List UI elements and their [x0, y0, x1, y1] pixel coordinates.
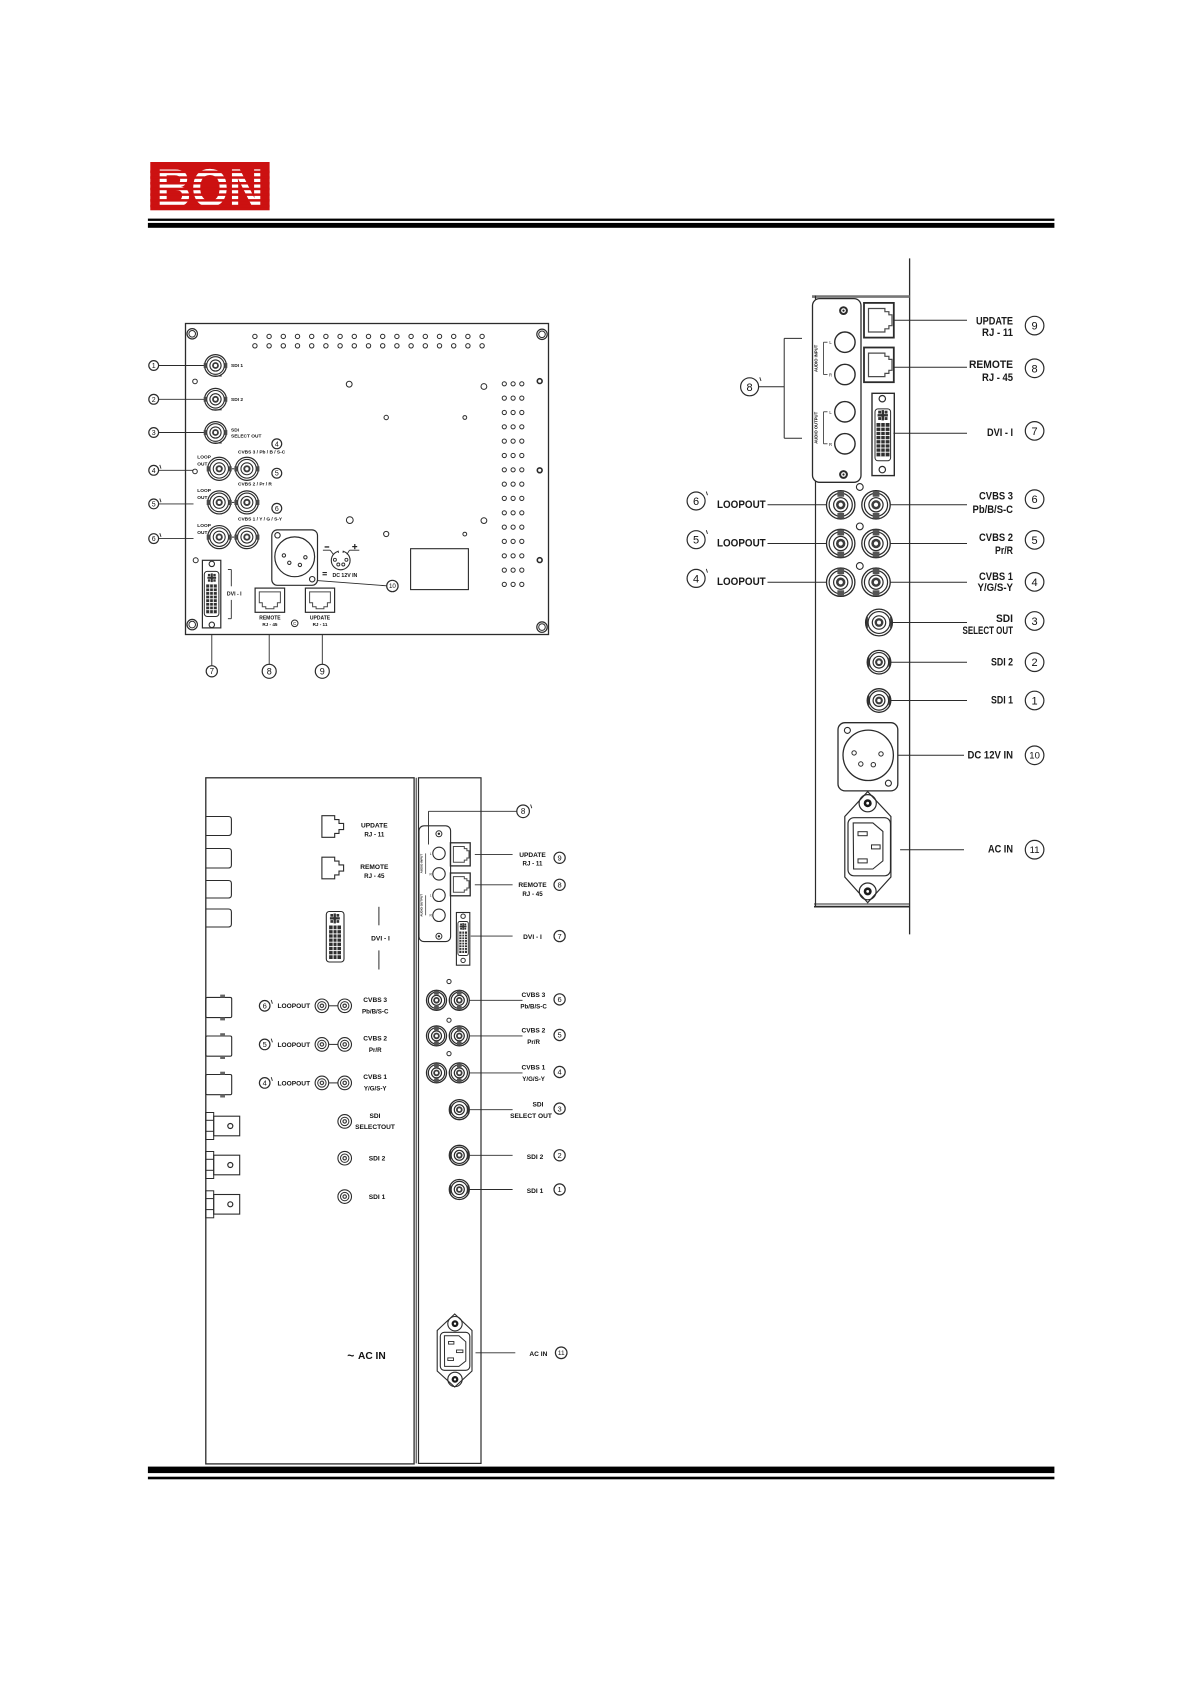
label circle 5 (right) — [272, 468, 282, 478]
BNC CVBS 1 — [235, 526, 258, 549]
RCA CVBS 1 C — [338, 1076, 352, 1090]
BNC LOOPOUT 6 B — [827, 491, 855, 519]
svg-text:SDI 1: SDI 1 — [369, 1194, 386, 1201]
wire REMOTE D — [475, 884, 513, 886]
panel A corner screws — [187, 329, 197, 339]
AC inlet screw top B — [859, 795, 876, 812]
BNC SDI 2 B — [867, 650, 891, 674]
svg-text:CVBS 1: CVBS 1 — [363, 1074, 387, 1081]
panel hole above row 4 D — [447, 1052, 451, 1056]
svg-text:4: 4 — [693, 573, 699, 585]
svg-text:6: 6 — [275, 506, 279, 513]
BNC loop out 6 D — [427, 990, 447, 1010]
label circle 6 prime B — [687, 492, 705, 510]
panel A right bold holes — [537, 379, 542, 384]
label circle 11 B — [1025, 840, 1044, 859]
wire SDI 1 D — [470, 1189, 513, 1191]
svg-text:CVBS 3: CVBS 3 — [979, 491, 1013, 503]
panel B bottom edge — [814, 903, 910, 905]
BNC SDI 1 D — [449, 1180, 469, 1200]
panel hole above row 6 D — [447, 979, 451, 983]
panel A vent holes — [253, 334, 257, 338]
BNC SDI 2 — [205, 388, 227, 410]
wire to label 8 — [268, 635, 270, 665]
wire to label 7 — [211, 635, 213, 666]
svg-text:5: 5 — [693, 535, 699, 547]
svg-text:9: 9 — [1032, 321, 1038, 333]
svg-text:SDI 1: SDI 1 — [527, 1188, 544, 1195]
wire pair link 6 — [232, 536, 235, 538]
label circle 5 prime (left) — [149, 499, 159, 509]
label circle 4 prime C — [259, 1078, 270, 1089]
AC inlet screw bottom B — [859, 883, 876, 900]
svg-text:LOOPOUT: LOOPOUT — [717, 538, 766, 550]
svg-text:8: 8 — [1032, 363, 1038, 375]
label circle 3 D — [554, 1103, 565, 1114]
panel C outline — [206, 778, 414, 1464]
label circle 2 D — [554, 1150, 565, 1161]
panel D inner left edge — [415, 778, 417, 1464]
label circle 5 prime C — [259, 1039, 270, 1050]
wire REMOTE B — [894, 366, 967, 368]
svg-text:OUT: OUT — [197, 462, 207, 468]
svg-text:5: 5 — [152, 501, 156, 508]
svg-text:6: 6 — [263, 1002, 267, 1011]
RCA CVBS 2 C — [338, 1038, 352, 1052]
BNC LOOP OUT 6 — [208, 526, 231, 549]
BNC SDI SELECT OUT B — [866, 609, 893, 636]
svg-text:DVI - I: DVI - I — [371, 936, 390, 943]
leader wire 5 prime — [159, 503, 194, 505]
audio sub-panel screws B — [840, 307, 847, 314]
AC inlet screw bottom D — [448, 1372, 462, 1386]
svg-text:CVBS 3: CVBS 3 — [363, 997, 387, 1004]
label circle 4 prime B — [687, 569, 705, 587]
wire SDI 2 B — [891, 661, 967, 663]
svg-text:SDI: SDI — [370, 1113, 381, 1120]
svg-text:1: 1 — [1032, 696, 1038, 708]
wire 8 prime D — [429, 810, 517, 812]
svg-text:L: L — [430, 894, 432, 898]
BNC SDI SELECT OUT D — [449, 1100, 469, 1120]
svg-text:SDI 2: SDI 2 — [369, 1156, 386, 1163]
svg-text:~: ~ — [347, 1349, 354, 1363]
svg-text:R: R — [829, 373, 832, 378]
svg-text:Pb/B/S-C: Pb/B/S-C — [520, 1003, 547, 1010]
svg-text:Pr/R: Pr/R — [369, 1047, 382, 1054]
top rule thin — [148, 219, 1055, 221]
svg-text:5: 5 — [1032, 535, 1038, 547]
wire CVBS 2 D — [470, 1035, 523, 1037]
BON logo stripes — [150, 171, 269, 174]
svg-text:OUT: OUT — [197, 530, 207, 536]
svg-text:5: 5 — [263, 1040, 267, 1049]
BNC SDI 1 B — [867, 689, 891, 713]
XLR pins — [282, 554, 285, 557]
svg-text:RJ - 45: RJ - 45 — [364, 873, 385, 880]
svg-text:4: 4 — [558, 1068, 562, 1077]
DC jack ears — [330, 550, 333, 554]
svg-text:CVBS 2: CVBS 2 — [521, 1028, 545, 1035]
panel B frame vertical line — [909, 258, 911, 934]
svg-text:SELECT OUT: SELECT OUT — [231, 434, 261, 440]
wire SDI 2 D — [470, 1154, 513, 1156]
RJ-45 REMOTE plug profile C — [322, 857, 344, 879]
svg-text:REMOTE: REMOTE — [518, 882, 547, 889]
wire LOOPOUT 5 B — [768, 543, 827, 545]
svg-text:LOOPOUT: LOOPOUT — [278, 1080, 311, 1087]
panel hole above row 6 B — [856, 484, 863, 491]
BNC LOOP OUT 4 — [208, 457, 231, 480]
wire LOOPOUT 4 B — [768, 581, 827, 583]
wire to label 9 — [321, 635, 323, 665]
svg-text:SDI 2: SDI 2 — [527, 1154, 544, 1161]
svg-text:DVI - I: DVI - I — [987, 427, 1013, 439]
svg-text:6: 6 — [693, 496, 699, 508]
wire AC IN D — [476, 1352, 516, 1354]
wire CVBS 3 D — [470, 999, 523, 1001]
svg-text:5: 5 — [558, 1031, 562, 1040]
audio output L jack B — [835, 402, 855, 422]
svg-text:DVI - I: DVI - I — [523, 934, 542, 941]
panel hole above row 5 D — [447, 1018, 451, 1022]
BNC SDI 2 D — [449, 1145, 469, 1165]
svg-text:AC IN: AC IN — [529, 1351, 547, 1358]
svg-text:AUDIO INPUT: AUDIO INPUT — [813, 344, 818, 372]
label circle 2 B — [1025, 653, 1044, 672]
svg-text:7: 7 — [210, 667, 215, 676]
svg-text:UPDATE: UPDATE — [976, 316, 1013, 328]
label circle 6 D — [554, 994, 565, 1005]
svg-text:2: 2 — [558, 1151, 562, 1160]
svg-text:SELECTOUT: SELECTOUT — [355, 1124, 395, 1131]
RCA SDI 2 C — [338, 1151, 352, 1165]
AC pin slots B — [858, 832, 867, 836]
svg-text:8: 8 — [558, 881, 562, 890]
svg-text:1: 1 — [152, 363, 156, 370]
svg-text:RJ - 45: RJ - 45 — [982, 372, 1013, 384]
svg-text:3: 3 — [152, 430, 156, 437]
label circle 8 D — [554, 879, 565, 890]
audio jack side views C — [206, 817, 232, 836]
label circle 4 B — [1025, 573, 1044, 592]
svg-text:AUDIO INPUT: AUDIO INPUT — [419, 854, 423, 874]
audio sub-panel D — [419, 826, 451, 942]
svg-text:11: 11 — [1030, 845, 1040, 856]
DVI bracket panel A — [230, 570, 232, 587]
audio input R jack B — [835, 364, 855, 384]
panel D outline — [419, 778, 482, 1464]
svg-text:LOOP: LOOP — [197, 488, 211, 494]
BNC CVBS 2 — [235, 491, 258, 514]
DC jack minus mark — [325, 546, 330, 547]
svg-text:LOOPOUT: LOOPOUT — [717, 499, 766, 511]
RCA SDI 1 C — [338, 1190, 352, 1204]
DVI-I connector B — [872, 393, 894, 475]
wire CVBS 2 B — [890, 543, 967, 545]
label circle 8 — [262, 664, 276, 678]
label circle 1 D — [554, 1184, 565, 1195]
svg-text:OUT: OUT — [197, 495, 207, 501]
BNC CVBS 3 D — [449, 990, 469, 1010]
wire pair link 5 — [232, 501, 235, 503]
svg-text:Y/G/S-Y: Y/G/S-Y — [364, 1086, 388, 1093]
audio sub-panel B — [813, 299, 862, 483]
svg-text:9: 9 — [320, 667, 325, 677]
label circle 9 D — [554, 852, 565, 863]
bottom rule thin — [148, 1477, 1055, 1480]
DVI-I connector panel A — [202, 560, 220, 628]
SDI BNC side views C — [206, 1113, 214, 1140]
BNC side views C — [206, 997, 232, 1017]
svg-text:LOOPOUT: LOOPOUT — [278, 1042, 311, 1049]
label circle 8 prime B — [741, 378, 759, 396]
svg-text:RJ - 45: RJ - 45 — [522, 891, 543, 898]
svg-text:SDI 1: SDI 1 — [231, 363, 243, 369]
BNC LOOPOUT 4 B — [827, 568, 855, 596]
BNC CVBS 3 — [235, 457, 258, 480]
label circle 7 D — [554, 931, 565, 942]
AC pin slots D — [449, 1342, 454, 1345]
label circle 1 B — [1025, 691, 1044, 710]
BNC CVBS 2 D — [449, 1026, 469, 1046]
XLR screw bottom-right — [310, 577, 315, 582]
svg-text:SDI 1: SDI 1 — [991, 695, 1013, 707]
svg-text:8: 8 — [747, 382, 753, 394]
label circle 6 prime (left) — [149, 534, 159, 544]
RJ-11 UPDATE jack B — [864, 303, 894, 338]
svg-text:CVBS 1 / Y / G / S-Y: CVBS 1 / Y / G / S-Y — [238, 516, 283, 522]
XLR barrel — [275, 537, 315, 577]
svg-text:CVBS 2 / Pr / R: CVBS 2 / Pr / R — [238, 481, 272, 487]
svg-text:6: 6 — [1032, 494, 1038, 506]
svg-text:3: 3 — [558, 1104, 562, 1113]
panel hole above row 5 B — [856, 523, 863, 530]
svg-text:2: 2 — [152, 397, 156, 404]
wire to label 10 — [317, 581, 386, 586]
leader wire 3 — [159, 432, 205, 434]
svg-text:6: 6 — [558, 995, 562, 1004]
label circle 4 D — [554, 1066, 565, 1077]
svg-text:LOOP: LOOP — [197, 523, 211, 529]
label circle 6 B — [1025, 490, 1044, 509]
wire DVI D — [471, 935, 513, 937]
leader wire 2 — [159, 398, 205, 400]
BNC SDI 1 — [205, 355, 227, 377]
svg-text:RJ - 11: RJ - 11 — [313, 622, 328, 627]
svg-text:RJ - 11: RJ - 11 — [982, 327, 1013, 339]
label circle 8 prime D — [517, 805, 530, 818]
svg-text:DC 12V IN: DC 12V IN — [333, 573, 358, 579]
leader wire 6 prime — [159, 538, 194, 540]
RJ-45 REMOTE jack B — [864, 348, 894, 383]
svg-text:CVBS 3: CVBS 3 — [521, 992, 545, 999]
label circle 8 B — [1025, 359, 1044, 378]
svg-text:UPDATE: UPDATE — [310, 616, 331, 622]
BON logo red box — [150, 162, 269, 210]
svg-text:Y/G/S-Y: Y/G/S-Y — [522, 1076, 546, 1083]
label circle 9 B — [1025, 316, 1044, 335]
top rule thick — [148, 223, 1055, 228]
BNC loop out 4 D — [427, 1063, 447, 1083]
svg-text:5: 5 — [275, 471, 279, 478]
wire pair 4 C — [329, 1082, 338, 1084]
svg-text:4: 4 — [275, 441, 279, 448]
svg-text:LOOPOUT: LOOPOUT — [278, 1003, 311, 1010]
label circle 5 D — [554, 1029, 565, 1040]
bottom rule thick — [148, 1467, 1055, 1474]
AC inlet plate D — [437, 1314, 472, 1387]
svg-text:DC 12V IN: DC 12V IN — [968, 750, 1014, 762]
label circle 1 — [149, 361, 159, 371]
wire pair 5 C — [329, 1043, 338, 1045]
DC DIN pins — [333, 558, 336, 561]
label circle 6 (right) — [272, 503, 282, 513]
BNC loop out 5 D — [427, 1026, 447, 1046]
wire UPDATE D — [475, 853, 513, 855]
svg-text:11: 11 — [558, 1350, 565, 1357]
DVI-I connector C — [326, 912, 344, 963]
panel A small rectangle cutout — [411, 549, 469, 590]
svg-text:REMOTE: REMOTE — [969, 359, 1013, 371]
label circle 7 — [206, 666, 217, 677]
label circle 4 (right) — [272, 439, 282, 449]
wire CVBS 1 D — [470, 1072, 523, 1074]
label circle 7 B — [1025, 422, 1044, 441]
wire AC IN B — [900, 849, 964, 851]
svg-text:Y/G/S-Y: Y/G/S-Y — [978, 582, 1014, 594]
label circle 2 — [149, 394, 159, 404]
svg-text:Pr/R: Pr/R — [995, 545, 1013, 557]
RJ-45 REMOTE jack D — [450, 873, 470, 896]
audio sub-panel screws D — [436, 831, 442, 837]
DC 12V DIN jack — [331, 551, 350, 570]
AC inlet plate B — [845, 792, 891, 903]
svg-text:SDI 2: SDI 2 — [231, 397, 243, 403]
svg-text:10: 10 — [389, 583, 396, 590]
label circle 11 D — [555, 1347, 567, 1359]
svg-text:SDI: SDI — [996, 613, 1013, 625]
wire SDI 1 B — [891, 700, 967, 702]
svg-text:8: 8 — [267, 667, 272, 677]
AC IEC socket B — [848, 818, 891, 876]
BNC CVBS 2 B — [862, 529, 890, 557]
XLR power connector body — [272, 530, 318, 585]
svg-text:RJ - 45: RJ - 45 — [262, 622, 278, 627]
label circle 3 — [149, 428, 159, 438]
svg-text:2: 2 — [1032, 657, 1038, 669]
label circle 6 prime C — [259, 1001, 270, 1012]
svg-text:REMOTE: REMOTE — [360, 864, 389, 871]
svg-text:C: C — [293, 621, 296, 626]
svg-text:Pb/B/S-C: Pb/B/S-C — [973, 504, 1014, 516]
audio pair bracket output B — [823, 412, 825, 444]
label circle 9 — [315, 664, 329, 678]
wire CVBS 3 B — [890, 504, 967, 506]
copyright mark — [291, 620, 298, 627]
wire SDI SELECT OUT B — [892, 622, 967, 624]
panel hole on wire — [193, 469, 198, 474]
RJ-11 UPDATE jack panel A — [305, 588, 334, 612]
svg-text:SDI: SDI — [231, 427, 240, 433]
audio pair bracket input B — [823, 342, 825, 374]
wire 8 prime to bracket — [758, 386, 784, 388]
svg-text:Pb/B/S-C: Pb/B/S-C — [362, 1008, 389, 1015]
XLR screw top-left — [275, 533, 280, 538]
svg-text:CVBS 2: CVBS 2 — [363, 1036, 387, 1043]
wire DVI B — [893, 432, 967, 434]
BNC LOOP OUT 5 — [208, 491, 231, 514]
wire CVBS 1 B — [890, 581, 967, 583]
svg-text:CVBS 3 / Pb / B / S-C: CVBS 3 / Pb / B / S-C — [238, 449, 286, 455]
svg-text:1: 1 — [558, 1185, 562, 1194]
RJ-11 UPDATE jack D — [450, 843, 470, 866]
svg-text:Pr/R: Pr/R — [527, 1039, 540, 1046]
svg-text:RJ - 11: RJ - 11 — [523, 861, 544, 868]
bracket 8 prime — [783, 338, 785, 438]
svg-text:4: 4 — [152, 468, 156, 475]
BNC CVBS 1 B — [862, 568, 890, 596]
BNC LOOPOUT 5 B — [827, 529, 855, 557]
svg-text:L: L — [430, 852, 432, 856]
RCA loop out 6 C — [315, 999, 329, 1013]
AC IEC socket D — [440, 1332, 470, 1370]
leader wire 1 — [159, 365, 205, 367]
RCA SDI SELECTOUT C — [338, 1115, 352, 1129]
audio jacks D — [433, 847, 445, 859]
wire LOOPOUT 6 B — [768, 504, 827, 506]
label circle 5 prime B — [687, 531, 705, 549]
audio pair brackets D — [425, 853, 427, 874]
svg-text:6: 6 — [152, 536, 156, 543]
RCA loop out 5 C — [315, 1038, 329, 1052]
AC inlet screw top D — [448, 1317, 462, 1331]
wire pair link 4 — [232, 468, 235, 470]
wire pair 6 C — [329, 1005, 338, 1007]
svg-text:AUDIO OUTPUT: AUDIO OUTPUT — [419, 894, 423, 917]
svg-text:7: 7 — [558, 932, 562, 941]
label circle 10 — [387, 580, 398, 591]
panel hole above row 4 B — [856, 563, 863, 570]
svg-text:SELECT OUT: SELECT OUT — [963, 625, 1014, 637]
BNC CVBS 3 B — [862, 491, 890, 519]
BNC SDI SELECT OUT — [205, 422, 227, 444]
label circle 3 B — [1025, 612, 1044, 631]
panel A scattered holes — [193, 379, 198, 384]
svg-text:3: 3 — [1032, 616, 1038, 628]
wire SDI SELECT OUT D — [470, 1109, 513, 1111]
XLR DC 12V IN connector B — [838, 723, 898, 791]
label circle 4 prime (left) — [149, 465, 159, 475]
audio input L jack B — [835, 332, 855, 352]
svg-text:SELECT OUT: SELECT OUT — [510, 1113, 552, 1120]
svg-text:REMOTE: REMOTE — [259, 616, 281, 622]
svg-text:8: 8 — [521, 807, 526, 816]
svg-text:AC IN: AC IN — [358, 1351, 386, 1362]
svg-text:CVBS 1: CVBS 1 — [521, 1065, 545, 1072]
svg-text:AUDIO OUTPUT: AUDIO OUTPUT — [813, 411, 818, 443]
svg-text:RJ - 11: RJ - 11 — [364, 832, 385, 839]
label circle 5 B — [1025, 531, 1044, 550]
svg-text:CVBS 2: CVBS 2 — [979, 532, 1013, 544]
svg-text:LOOPOUT: LOOPOUT — [717, 576, 766, 588]
svg-text:SDI 2: SDI 2 — [991, 656, 1013, 668]
svg-text:DVI - I: DVI - I — [227, 591, 242, 597]
svg-text:9: 9 — [558, 854, 562, 863]
svg-text:4: 4 — [1032, 577, 1038, 589]
leader wire 4 prime — [159, 469, 194, 471]
RJ-11 UPDATE plug profile C — [322, 816, 344, 838]
